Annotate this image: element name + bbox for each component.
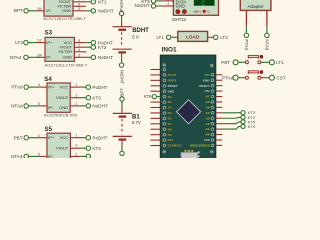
svg-text:NTA4: NTA4 [11, 154, 23, 158]
DHT11 indicator dot [203, 10, 206, 13]
svg-text:PTAd: PTAd [222, 75, 234, 80]
board INO1 usb connector [181, 152, 198, 158]
power adapter (cut off at top) [240, 0, 271, 10]
pin stub IP+ pins 1/2 [37, 42, 46, 44]
pin stub IP+ pin 4 [39, 86, 48, 88]
node battery BDHT minus terminal [119, 63, 123, 67]
node NoDHT [91, 9, 95, 13]
svg-text:+5V: +5V [204, 89, 209, 93]
svg-text:D1/TX: D1/TX [168, 73, 177, 77]
svg-text:D5: D5 [168, 111, 172, 115]
svg-text:PBT: PBT [221, 60, 230, 65]
wire NTA4 to IP- [29, 155, 39, 157]
svg-text:D2: D2 [168, 95, 172, 99]
svg-text:4: 4 [38, 83, 40, 87]
svg-text:BPT: BPT [119, 88, 124, 97]
battery BDHT plate short 2 [118, 51, 126, 53]
pin stub VCC pin 1 [70, 86, 80, 88]
node battery B1 plus terminal [120, 97, 124, 101]
svg-text:LT2: LT2 [220, 35, 228, 40]
wire PTAd to IP+ [29, 86, 39, 88]
pin stub VIOUT pin 7 [74, 46, 85, 48]
wire GND to NoDHT [81, 105, 87, 107]
pin stub GND pin 2 [70, 155, 80, 157]
svg-text:2: 2 [76, 152, 78, 156]
svg-text:GND: GND [62, 8, 71, 13]
wire LOAD to LT2 [208, 36, 214, 38]
svg-text:DHT11: DHT11 [172, 17, 186, 22]
svg-text:5: 5 [78, 54, 80, 58]
svg-text:GND: GND [176, 4, 185, 9]
svg-text:3V3: 3V3 [204, 138, 210, 142]
svg-text:S3: S3 [45, 30, 53, 37]
svg-text:D3: D3 [168, 100, 172, 104]
temperature sensor DHT11 (cut off at top) [173, 0, 218, 15]
node KT4 [241, 124, 245, 128]
board INO1 PCB [160, 55, 216, 159]
battery B1 dashed link [121, 119, 123, 134]
svg-text:D7: D7 [168, 122, 172, 126]
wire button to LT1 [261, 61, 270, 63]
node KT1 [91, 0, 95, 4]
battery B1 plate long 1 [113, 112, 132, 114]
svg-text:KT6: KT6 [144, 94, 152, 99]
button contact right [258, 61, 261, 64]
svg-text:GND: GND [63, 55, 72, 60]
button dot [260, 55, 264, 59]
wire PBT to IP+ [29, 137, 39, 139]
board INO1 microcontroller chip [177, 100, 201, 124]
svg-text:4: 4 [167, 2, 169, 6]
pin stub IP+ pin 4 [39, 137, 48, 139]
svg-text:2: 2 [76, 102, 78, 106]
svg-text:1/2: 1/2 [37, 39, 42, 43]
board INO1 right pin stubs [216, 75, 223, 146]
wire B1 plus [121, 101, 123, 107]
svg-text:5: 5 [38, 153, 40, 157]
svg-text:3/4: 3/4 [37, 7, 42, 11]
battery B1 plate long 2 [113, 135, 132, 137]
svg-text:D0/RX: D0/RX [168, 78, 177, 82]
pin stub IP- pins 3/4 [37, 56, 46, 58]
button cap [248, 55, 258, 57]
pin stub FILTER pin 6 unconnected [74, 51, 86, 53]
wire board A4 to KT3 [222, 112, 241, 114]
battery B1 plate short 1 [119, 115, 127, 117]
pin stub VIOUT pin 3 [70, 97, 80, 99]
button contact left [245, 76, 248, 79]
wire BDHT minus [121, 57, 123, 63]
node CST [269, 75, 274, 80]
node NoDHT [91, 55, 95, 59]
wire VIOUT to KT4 [81, 147, 87, 149]
svg-text:Adapter: Adapter [247, 4, 264, 9]
wire VIOUT to KT2 [86, 46, 91, 48]
svg-text:GND: GND [168, 89, 176, 93]
svg-text:PBT: PBT [14, 135, 23, 140]
pin stub VCC pin 8 [74, 42, 85, 44]
node battery B1 minus terminal [120, 151, 124, 155]
svg-text:LOAD: LOAD [186, 35, 200, 40]
svg-text:KT1: KT1 [98, 0, 107, 5]
pin stub VIOUT pin 7 [73, 1, 86, 3]
wire NTAd to IP- [29, 105, 39, 107]
wire GND to NoDHT [81, 155, 87, 157]
svg-text:NoDHT: NoDHT [92, 104, 108, 109]
svg-text:D11/MOSI: D11/MOSI [168, 144, 182, 148]
battery BDHT dashed link [121, 32, 123, 47]
svg-text:VCC: VCC [60, 85, 69, 90]
svg-text:IP-: IP- [48, 154, 54, 158]
button contact right [258, 76, 261, 79]
pin stub GND pin 5 [74, 56, 85, 58]
wire KT6 to board pin D2 [156, 96, 160, 98]
svg-text:LT1: LT1 [156, 35, 164, 40]
svg-text:S5: S5 [45, 126, 53, 133]
svg-text:RESET: RESET [199, 84, 209, 88]
svg-text:%RH: %RH [193, 10, 201, 14]
svg-text:VCC: VCC [60, 135, 69, 140]
pin stub VCC pin 1 [70, 137, 80, 139]
pin stub IP- pin 5 [39, 155, 48, 157]
svg-text:NoDHT: NoDHT [119, 70, 124, 85]
pin stub B1 plus [121, 108, 123, 113]
node NoDHT [86, 154, 90, 158]
node KT3 [86, 96, 90, 100]
button dot [260, 70, 264, 74]
wire board A2 to KT5 [222, 122, 241, 124]
wire GND to NoDHT [86, 10, 91, 12]
battery B1 plate short 2 [119, 138, 127, 140]
node KT5 [241, 120, 245, 124]
pin stub DATA pin 2 [162, 0, 173, 2]
pin stub VIOUT pin 3 [70, 147, 80, 149]
svg-text:PoDHT: PoDHT [92, 85, 107, 90]
pin stub adapter right [266, 10, 268, 25]
svg-text:6: 6 [78, 3, 80, 7]
svg-text:KT4: KT4 [92, 146, 101, 151]
battery BDHT plate long 1 [113, 26, 132, 28]
svg-text:VIOUT: VIOUT [56, 95, 69, 100]
svg-text:S4: S4 [44, 76, 52, 83]
wire board A3 to KT2 [222, 116, 241, 119]
DHT11 body pad 2 [182, 10, 186, 14]
node LT1 [269, 60, 274, 65]
svg-text:A6: A6 [206, 100, 210, 104]
wire LT2 to IP+ [28, 42, 36, 44]
pin stub adapter left [245, 10, 247, 25]
pin stub IP- pins 3/4 [37, 10, 45, 12]
pin stub IP- pin 5 [39, 105, 48, 107]
node KT3 [241, 111, 245, 115]
svg-text:D4: D4 [168, 106, 172, 110]
board INO1 mounting holes [163, 63, 166, 66]
current sensor S5 (ACS755, cut off at bottom) [47, 133, 70, 162]
node battery BDHT plus terminal [119, 11, 123, 15]
wire PTAd to button [238, 77, 245, 79]
load component LOAD [178, 31, 208, 41]
svg-text:FILTER: FILTER [59, 49, 73, 54]
battery BDHT plate short 1 [118, 29, 126, 31]
wire VCC to PoDHT [81, 86, 87, 88]
svg-text:LT1: LT1 [276, 60, 284, 65]
board INO1 pin pads and labels [163, 68, 215, 148]
svg-text:RESET: RESET [168, 84, 178, 88]
board INO1 left pin stubs [151, 70, 161, 146]
wire GND to NoDHT [86, 56, 91, 58]
wire VCC to PoDHT [86, 42, 91, 44]
svg-text:8: 8 [78, 39, 80, 43]
svg-text:21: 21 [201, 3, 205, 7]
node PoDHT [86, 136, 90, 140]
button cap [248, 71, 258, 73]
svg-text:KT2: KT2 [98, 45, 107, 50]
svg-text:5: 5 [38, 102, 40, 106]
DHT11 body pad 1 [176, 10, 180, 14]
svg-text:PTAd: PTAd [11, 85, 23, 90]
button contact left [245, 61, 248, 64]
node NoDHT [86, 104, 90, 108]
svg-text:A1: A1 [206, 127, 210, 131]
current sensor S4 (ACS755) [47, 83, 70, 112]
wire adapter left down [245, 26, 247, 33]
svg-text:GND: GND [203, 78, 211, 82]
svg-text:1: 1 [76, 83, 78, 87]
svg-text:A7: A7 [206, 95, 210, 99]
current sensor S2 (ACS712, cut off at top) [44, 0, 73, 16]
node KT4 [86, 146, 90, 150]
wire B1 minus [121, 145, 123, 151]
svg-text:2: 2 [167, 0, 169, 1]
node NTAd under adapter [265, 33, 269, 37]
svg-text:A4: A4 [206, 111, 210, 115]
svg-text:IP-: IP- [46, 8, 52, 13]
svg-text:ACS755KCB-050: ACS755KCB-050 [44, 113, 78, 118]
svg-text:6: 6 [78, 48, 80, 52]
svg-text:IP-: IP- [46, 55, 52, 60]
svg-text:A0: A0 [206, 133, 210, 137]
svg-text:PTAd: PTAd [244, 39, 249, 50]
node KT2 [241, 115, 245, 119]
svg-text:D8: D8 [168, 127, 172, 131]
svg-text:A3: A3 [206, 116, 210, 120]
svg-text:NTA4: NTA4 [10, 55, 22, 60]
DHT11 LCD screen [194, 0, 215, 6]
svg-text:CST: CST [276, 75, 285, 80]
svg-text:PoDHT: PoDHT [119, 0, 124, 11]
pin stub B1 minus [121, 141, 123, 145]
svg-text:ACS712ELCTR-05B-T: ACS712ELCTR-05B-T [45, 62, 88, 67]
svg-text:INO1: INO1 [162, 47, 177, 54]
board INO1 usb connector gold contacts [184, 150, 186, 153]
svg-text:3.7V: 3.7V [132, 120, 141, 125]
current sensor S3 (ACS712) [45, 37, 74, 61]
pin stub BDHT minus [121, 54, 123, 58]
svg-text:°C: °C [206, 10, 210, 14]
pin stub GND pin 2 [70, 105, 80, 107]
svg-text:NoDHT: NoDHT [134, 3, 150, 8]
wire board A1 to KT4 [222, 126, 241, 129]
node PoDHT [91, 40, 95, 44]
pin stub FILTER pin 6 unconnected [73, 5, 86, 7]
svg-text:IP+: IP+ [46, 40, 53, 45]
wire LT1 to LOAD [171, 36, 178, 38]
svg-text:VIOUT: VIOUT [56, 146, 69, 151]
svg-text:3/4: 3/4 [37, 53, 42, 57]
svg-text:D6: D6 [168, 116, 172, 120]
pin stub GND pin 5 [73, 10, 86, 12]
node LT2 [214, 35, 218, 39]
svg-text:3: 3 [76, 144, 78, 148]
svg-text:A5: A5 [206, 105, 210, 109]
svg-text:5 V: 5 V [132, 34, 139, 39]
svg-text:7: 7 [78, 44, 80, 48]
wire NTA4 to IP- [28, 56, 36, 58]
battery BDHT plate long 2 [113, 48, 132, 50]
svg-text:3: 3 [76, 94, 78, 98]
svg-text:NTAd: NTAd [11, 104, 23, 109]
wire KT5 to DATA [156, 0, 162, 2]
svg-text:5: 5 [78, 7, 80, 11]
node KT2 [91, 45, 95, 49]
wire VIOUT to KT1 [86, 1, 91, 3]
svg-text:IP-: IP- [48, 105, 54, 110]
wire adapter right down [266, 26, 268, 33]
svg-text:NoDHT: NoDHT [98, 9, 114, 14]
svg-text:KT3: KT3 [92, 95, 101, 100]
wire VIOUT to KT3 [81, 97, 87, 99]
svg-text:NoDHT: NoDHT [98, 55, 114, 60]
svg-text:KT4: KT4 [248, 124, 256, 129]
wire VCC to PoDHT [81, 137, 87, 139]
svg-text:1: 1 [76, 134, 78, 138]
svg-text:NTAd: NTAd [264, 39, 269, 50]
svg-text:IP+: IP+ [48, 135, 55, 140]
svg-text:BDHT: BDHT [132, 28, 149, 34]
wire BDHT plus [121, 16, 123, 21]
wire BPT to IP- [29, 10, 37, 12]
wire PBT to button [238, 61, 245, 63]
svg-text:SCK/LED/D13: SCK/LED/D13 [190, 143, 210, 147]
svg-text:GND: GND [59, 105, 68, 110]
svg-text:IP+: IP+ [48, 85, 55, 90]
node PoDHT [86, 85, 90, 89]
svg-text:ACS712ELCTR-05B-T: ACS712ELCTR-05B-T [43, 16, 86, 21]
pin stub BDHT plus [121, 21, 123, 26]
svg-text:A2: A2 [206, 122, 210, 126]
svg-text:D10: D10 [168, 138, 174, 142]
svg-text:D9: D9 [168, 133, 172, 137]
wire NoDHT to GND [156, 5, 162, 7]
svg-text:4: 4 [38, 134, 40, 138]
svg-text:PoDHT: PoDHT [92, 135, 107, 140]
svg-text:BPT: BPT [14, 8, 23, 13]
svg-text:LT2: LT2 [15, 40, 23, 45]
pin stub GND pin 4 [162, 5, 173, 7]
node PTAd under adapter [244, 33, 248, 37]
wire button to CST [261, 77, 270, 79]
svg-text:VIN: VIN [204, 73, 209, 77]
